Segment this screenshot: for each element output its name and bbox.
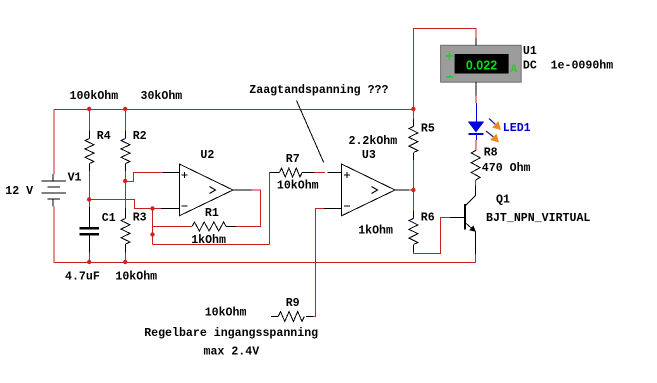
svg-text:R1: R1	[205, 207, 219, 220]
svg-text:U1: U1	[523, 45, 537, 58]
ammeter minus mark	[446, 76, 453, 78]
node dot feedback mid	[150, 232, 154, 236]
node dot U2 minus	[150, 206, 154, 210]
svg-text:0.022: 0.022	[466, 58, 497, 72]
wire U2 output to R1 right	[235, 190, 260, 227]
wire R8 to Q1 collector	[475, 180, 477, 185]
svg-text:C1: C1	[102, 212, 116, 225]
op-amp U3	[324, 164, 409, 216]
svg-text:10kOhm: 10kOhm	[277, 180, 319, 193]
wire riser to R7	[269, 173, 271, 245]
svg-text:R2: R2	[133, 130, 147, 143]
node dot R2-R3	[123, 179, 127, 183]
node dot rail-R4	[87, 107, 91, 111]
wire U3 output	[409, 189, 413, 191]
svg-text:1kOhm: 1kOhm	[191, 234, 226, 247]
wire R6 bottom to Q1 base	[413, 218, 450, 254]
wire C1 top	[89, 200, 91, 208]
wire U2 minus feedback vertical	[152, 209, 154, 245]
transistor Q1	[450, 185, 476, 254]
node dot rail-R5	[411, 107, 415, 111]
resistor R3	[125, 209, 127, 219]
svg-text:R4: R4	[97, 130, 111, 143]
capacitor C1	[79, 207, 98, 253]
wire LED to R8	[475, 140, 477, 151]
svg-text:R8: R8	[484, 147, 498, 160]
svg-text:R3: R3	[133, 212, 147, 225]
wire feedback bottom run	[153, 244, 270, 246]
ammeter plus mark	[446, 53, 453, 77]
pointer line annotation	[297, 101, 324, 163]
wire R4-C1 node to U2 minus input	[90, 200, 162, 209]
wire battery bottom	[53, 207, 55, 263]
svg-text:2.2kOhm: 2.2kOhm	[349, 135, 398, 148]
svg-text:12 V: 12 V	[5, 185, 33, 198]
wire R4 top	[89, 110, 91, 132]
resistor R1	[192, 222, 226, 231]
resistor R6	[412, 211, 414, 219]
svg-text:1e-0090hm: 1e-0090hm	[551, 59, 614, 72]
wire R2 top	[125, 110, 127, 132]
wire bottom rail	[54, 262, 476, 264]
ammeter display	[455, 54, 509, 74]
svg-text:30kOhm: 30kOhm	[141, 90, 183, 103]
svg-text:4.7uF: 4.7uF	[65, 271, 100, 284]
LED arrow 2	[486, 131, 499, 143]
node dot U3 output	[411, 188, 415, 192]
node dot rail-C1 bottom	[87, 260, 91, 264]
svg-text:10kOhm: 10kOhm	[205, 306, 247, 319]
svg-text:1kOhm: 1kOhm	[358, 225, 393, 238]
wire R4 bottom	[89, 171, 91, 200]
node dot rail-R2	[123, 107, 127, 111]
resistor R2	[125, 131, 127, 139]
ammeter U1 body	[441, 38, 522, 95]
LED LED1	[468, 103, 484, 140]
svg-text:R7: R7	[286, 153, 300, 166]
svg-text:100kOhm: 100kOhm	[70, 90, 119, 103]
svg-text:R5: R5	[421, 122, 435, 135]
LED arrow 1	[489, 119, 501, 131]
resistor R4	[89, 131, 91, 139]
svg-text:Zaagtandspanning ???: Zaagtandspanning ???	[249, 84, 388, 97]
op-amp U2	[161, 164, 252, 216]
svg-text:BJT_NPN_VIRTUAL: BJT_NPN_VIRTUAL	[486, 212, 590, 225]
svg-text:R6: R6	[421, 211, 435, 224]
wire R1 left	[153, 226, 193, 228]
wire R5 bottom	[412, 160, 414, 190]
wire R5 top	[412, 110, 414, 120]
resistor R5	[412, 119, 414, 127]
svg-text:max 2.4V: max 2.4V	[204, 345, 260, 358]
wire U3 minus corner	[313, 209, 324, 317]
svg-text:470 Ohm: 470 Ohm	[482, 162, 531, 175]
resistor R8	[471, 151, 480, 180]
wire top rail	[54, 109, 413, 111]
wire R7 to U3 plus	[314, 172, 325, 174]
wire R2 bottom to node	[125, 171, 127, 182]
node dot rail-R3 bottom	[123, 260, 127, 264]
resistor R7	[270, 172, 280, 174]
wire R3 bottom	[125, 253, 127, 263]
wire C1 bottom	[89, 253, 91, 263]
wire R6 top	[412, 190, 414, 211]
svg-text:10kOhm: 10kOhm	[115, 271, 157, 284]
battery V1	[41, 174, 66, 207]
svg-text:V1: V1	[68, 171, 82, 184]
svg-text:U3: U3	[362, 149, 376, 162]
wire node to U2 plus input	[126, 173, 164, 182]
svg-text:Regelbare ingangsspanning: Regelbare ingangsspanning	[144, 327, 318, 340]
wire Q1 emitter to rail	[475, 254, 477, 263]
svg-text:A: A	[511, 64, 518, 76]
svg-text:Q1: Q1	[496, 194, 510, 207]
svg-text:LED1: LED1	[503, 122, 531, 135]
wire node to R3 top	[125, 182, 127, 209]
resistor R9	[271, 316, 278, 318]
svg-text:DC: DC	[523, 59, 537, 72]
wire battery top drop	[53, 110, 55, 175]
svg-text:R9: R9	[286, 297, 300, 310]
wire meter to LED	[475, 95, 477, 103]
svg-text:U2: U2	[200, 149, 214, 162]
wire meter loop	[413, 29, 476, 110]
node dot R4-C1	[87, 197, 91, 201]
